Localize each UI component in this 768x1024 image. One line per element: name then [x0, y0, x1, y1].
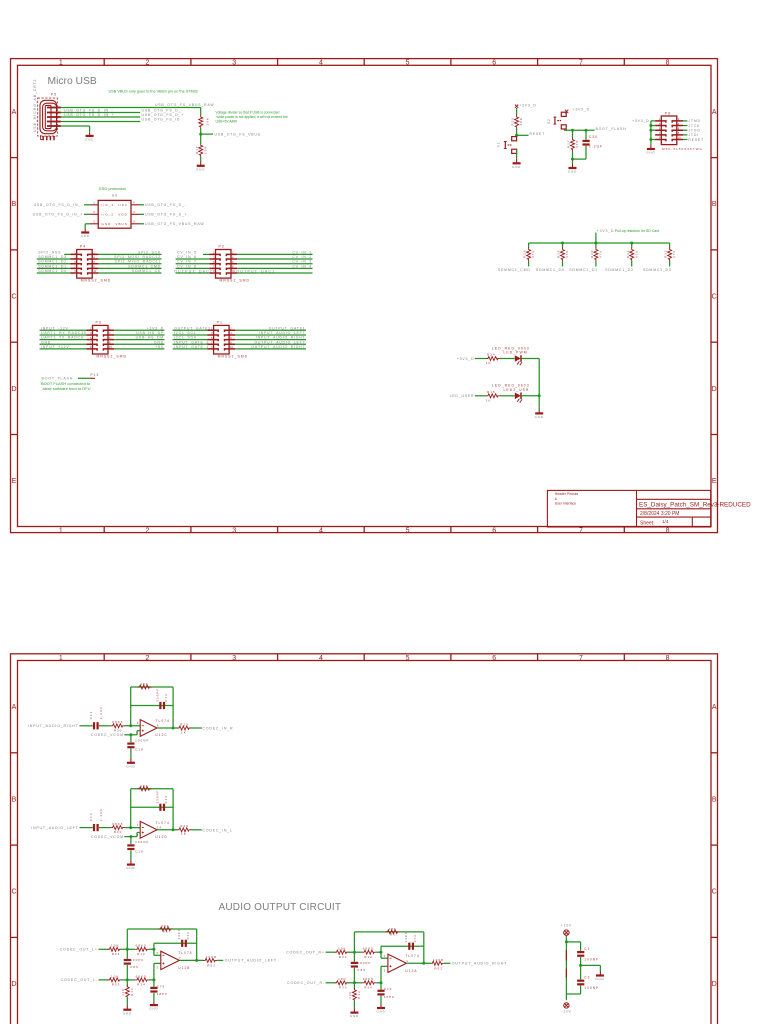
svg-text:OUTPUT_AUDIO_RIGHT: OUTPUT_AUDIO_RIGHT: [452, 962, 507, 966]
svg-text:3: 3: [384, 968, 387, 972]
svg-text:USB_OTG_FS_D_IN_+: USB_OTG_FS_D_IN_+: [33, 213, 83, 217]
svg-text:USB_OTG_FS_D_IN_+: USB_OTG_FS_D_IN_+: [64, 113, 114, 117]
svg-text:5: 5: [157, 966, 160, 970]
svg-text:INPUT_-12V: INPUT_-12V: [41, 326, 69, 330]
svg-text:OUTPUT_AUDIO_RIGHT: OUTPUT_AUDIO_RIGHT: [251, 345, 305, 349]
svg-text:6: 6: [133, 200, 136, 204]
svg-text:LED2_USR: LED2_USR: [504, 388, 530, 392]
svg-text:USB_OTG_FS_D_-: USB_OTG_FS_D_-: [145, 203, 187, 207]
svg-text:P8: P8: [665, 112, 671, 116]
svg-text:BOOT_FLASH: BOOT_FLASH: [42, 377, 74, 381]
svg-text:INPUT_AUDIO_LEFT: INPUT_AUDIO_LEFT: [259, 331, 306, 335]
svg-text:Header Pinouts: Header Pinouts: [555, 492, 579, 496]
svg-text:100NF: 100NF: [584, 986, 599, 990]
svg-text:P4: P4: [80, 245, 86, 249]
svg-text:7: 7: [179, 956, 182, 960]
svg-text:USB_HS_DP: USB_HS_DP: [136, 331, 164, 335]
svg-text:R51: R51: [207, 964, 216, 968]
svg-text:ES_Daisy_Patch_SM_Rev3-REDUCED: ES_Daisy_Patch_SM_Rev3-REDUCED: [639, 502, 751, 509]
svg-text:GND: GND: [41, 340, 51, 344]
svg-text:R16: R16: [201, 117, 205, 126]
svg-text:R17: R17: [195, 145, 199, 154]
svg-text:P3: P3: [96, 320, 102, 324]
svg-text:C3: C3: [584, 976, 590, 980]
svg-text:allow software boot to DFU: allow software boot to DFU: [43, 386, 91, 391]
svg-text:USB+5V AMR: USB+5V AMR: [216, 120, 238, 124]
svg-text:10K: 10K: [519, 117, 523, 126]
svg-text:+3V3_D: +3V3_D: [632, 119, 649, 123]
svg-text:SDMMC1_D2: SDMMC1_D2: [38, 260, 67, 264]
svg-text:JTDI: JTDI: [688, 133, 699, 137]
svg-text:47K: 47K: [634, 250, 638, 258]
svg-text:RESET: RESET: [530, 132, 546, 136]
svg-text:47K: 47K: [575, 140, 579, 149]
svg-text:R52: R52: [434, 967, 443, 971]
svg-text:USB_HS_DM: USB_HS_DM: [136, 336, 164, 340]
svg-text:OUTPUT_GATE1: OUTPUT_GATE1: [269, 326, 306, 330]
svg-text:INPUT_GATE_1: INPUT_GATE_1: [174, 345, 209, 349]
svg-text:MRSS2_SMD: MRSS2_SMD: [220, 279, 251, 283]
svg-text:12: 12: [137, 833, 142, 837]
svg-text:CODEC_IN_R: CODEC_IN_R: [202, 727, 233, 731]
svg-text:USB_OTG_FS_D_IN_-: USB_OTG_FS_D_IN_-: [34, 203, 83, 207]
svg-text:JTCK: JTCK: [688, 124, 700, 128]
svg-text:ESD protection: ESD protection: [99, 186, 126, 191]
svg-text:CODEC_OUT_L+: CODEC_OUT_L+: [60, 948, 98, 952]
svg-text:CV_IN_6: CV_IN_6: [177, 255, 197, 259]
svg-text:4: 4: [133, 210, 136, 214]
svg-text:SDMMC1_D3: SDMMC1_D3: [643, 268, 672, 272]
svg-text:INPUT_AUDIO_RIGHT: INPUT_AUDIO_RIGHT: [28, 724, 79, 728]
svg-text:R28: R28: [523, 250, 527, 258]
svg-text:CV_IN_7: CV_IN_7: [177, 260, 197, 264]
svg-text:P13: P13: [91, 373, 100, 377]
svg-text:CV_IN_2: CV_IN_2: [292, 255, 312, 259]
svg-text:SDMMC1_CK: SDMMC1_CK: [132, 269, 161, 273]
svg-text:MRSS2_SMD: MRSS2_SMD: [81, 279, 112, 283]
svg-text:JTMS: JTMS: [688, 119, 700, 123]
svg-text:I/O_1: I/O_1: [102, 203, 115, 207]
svg-text:47K: 47K: [565, 250, 569, 258]
svg-text:5: 5: [133, 219, 136, 223]
svg-text:SPI2_MISO_RADC11: SPI2_MISO_RADC11: [115, 260, 161, 264]
svg-text:CV_IN_1: CV_IN_1: [292, 250, 312, 254]
svg-text:JTDO: JTDO: [688, 129, 700, 133]
svg-text:OUTPUT_AUDIO_LEFT: OUTPUT_AUDIO_LEFT: [254, 340, 305, 344]
svg-text:10K: 10K: [203, 146, 207, 155]
svg-text:S1: S1: [497, 142, 501, 148]
svg-text:10: 10: [137, 731, 142, 735]
svg-text:36K: 36K: [205, 117, 209, 126]
svg-text:USB_OTG_FS_D_-: USB_OTG_FS_D_-: [142, 108, 184, 112]
svg-text:R15: R15: [487, 390, 496, 394]
svg-text:INPUT_AUDIO_RIGHT: INPUT_AUDIO_RIGHT: [256, 336, 306, 340]
svg-text:Pull-up resistors for SD Card: Pull-up resistors for SD Card: [615, 229, 660, 233]
svg-text:-12V: -12V: [561, 1009, 571, 1013]
svg-text:+3V3_D: +3V3_D: [597, 229, 614, 233]
svg-text:P1: P1: [217, 320, 223, 324]
svg-text:CODEC_IN_L: CODEC_IN_L: [202, 828, 232, 832]
svg-text:9: 9: [137, 721, 140, 725]
svg-text:LED_USER: LED_USER: [450, 394, 475, 398]
svg-text:U12C: U12C: [155, 733, 167, 737]
svg-text:1: 1: [406, 959, 409, 963]
svg-text:CODEC_OUT_L-: CODEC_OUT_L-: [61, 978, 98, 982]
svg-text:BOOT_FLASH: BOOT_FLASH: [596, 127, 627, 131]
svg-text:R32: R32: [664, 250, 668, 258]
svg-text:2.2UF: 2.2UF: [589, 145, 603, 149]
svg-text:13: 13: [137, 823, 142, 827]
svg-text:C30: C30: [589, 135, 598, 139]
svg-text:USB_OTG_FS_D_+: USB_OTG_FS_D_+: [145, 213, 188, 217]
svg-text:47K: 47K: [599, 250, 603, 258]
svg-text:1K: 1K: [486, 361, 492, 365]
svg-text:R30: R30: [114, 830, 123, 834]
svg-text:+3V3_D: +3V3_D: [147, 326, 164, 330]
svg-text:RESET: RESET: [688, 138, 704, 142]
svg-text:USB VBUS only goes to the VBUS: USB VBUS only goes to the VBUS pin on th…: [109, 90, 199, 94]
svg-text:LED_PWM: LED_PWM: [504, 351, 528, 355]
svg-text:3: 3: [93, 210, 96, 214]
svg-text:+3V3_D: +3V3_D: [573, 108, 590, 112]
svg-text:47K: 47K: [531, 250, 535, 258]
svg-text:R26: R26: [511, 117, 515, 126]
svg-text:2: 2: [384, 954, 387, 958]
svg-text:USB_OTG_FS_VBUS: USB_OTG_FS_VBUS: [215, 132, 261, 136]
svg-text:MRSS2_SMD: MRSS2_SMD: [218, 354, 249, 358]
svg-text:U12D: U12D: [155, 835, 167, 839]
svg-text:R30: R30: [590, 250, 594, 258]
svg-text:GND: GND: [154, 340, 164, 344]
svg-text:8: 8: [157, 724, 160, 728]
svg-text:P2: P2: [219, 245, 225, 249]
svg-text:2/8/2024 3:20 PM: 2/8/2024 3:20 PM: [640, 511, 679, 517]
svg-text:CV_IN_3: CV_IN_3: [292, 260, 312, 264]
svg-text:+3V3_D: +3V3_D: [519, 103, 536, 107]
svg-text:R29: R29: [557, 250, 561, 258]
svg-text:6: 6: [157, 951, 160, 955]
svg-text:SPI2_SCK: SPI2_SCK: [138, 250, 161, 254]
svg-text:while power is not applied, it: while power is not applied, it will not …: [217, 115, 288, 119]
svg-text:CV_IN_8: CV_IN_8: [177, 264, 197, 268]
svg-text:USB_OTG_FS_VBUS_RAW: USB_OTG_FS_VBUS_RAW: [155, 103, 214, 107]
svg-text:I/O_2: I/O_2: [102, 213, 115, 217]
svg-text:Voltage divider so that if USB: Voltage divider so that if USB is connec…: [216, 111, 280, 115]
svg-text:USB_MICRO_AB_CRT2: USB_MICRO_AB_CRT2: [33, 79, 37, 132]
svg-text:R14: R14: [487, 353, 496, 357]
svg-text:2.2UF: 2.2UF: [99, 808, 103, 821]
svg-text:INPUT_GATE_2: INPUT_GATE_2: [174, 340, 209, 344]
svg-text:CV_IN_5: CV_IN_5: [177, 250, 197, 254]
svg-text:LED_RED_0603: LED_RED_0603: [492, 384, 530, 388]
svg-text:SDMMC1_D0: SDMMC1_D0: [38, 269, 67, 273]
svg-text:1K: 1K: [486, 398, 492, 402]
svg-text:Sheet:: Sheet:: [640, 521, 654, 527]
svg-text:2: 2: [93, 219, 96, 223]
svg-text:SDMMC1_D0: SDMMC1_D0: [536, 268, 565, 272]
svg-text:OUTPUT_DAC1: OUTPUT_DAC1: [237, 270, 276, 274]
svg-text:SDMMC1_CMD: SDMMC1_CMD: [498, 268, 531, 272]
svg-text:+12V: +12V: [561, 924, 572, 928]
svg-text:USB_OTG_FS_ID: USB_OTG_FS_ID: [142, 117, 181, 121]
svg-text:U12A: U12A: [405, 969, 417, 973]
svg-text:INPUT_AUDIO_LEFT: INPUT_AUDIO_LEFT: [31, 826, 78, 830]
svg-text:OUTPUT_GATE2: OUTPUT_GATE2: [174, 326, 211, 330]
svg-text:LED_RED_0603: LED_RED_0603: [492, 346, 530, 350]
svg-text:I/O2: I/O2: [118, 203, 128, 207]
svg-text:I2C1_SCL: I2C1_SCL: [174, 331, 196, 335]
svg-text:14: 14: [157, 826, 162, 830]
svg-text:1: 1: [93, 200, 96, 204]
svg-text:CV_IN_4: CV_IN_4: [292, 264, 312, 268]
svg-text:USB_OTG_FS_D_+: USB_OTG_FS_D_+: [142, 113, 185, 117]
svg-text:User Interface: User Interface: [555, 501, 576, 505]
svg-text:CODEC_OUT_R+: CODEC_OUT_R+: [286, 951, 325, 955]
svg-text:M50-3150545TWG: M50-3150545TWG: [662, 147, 703, 151]
svg-text:SDMMC1_CMD: SDMMC1_CMD: [128, 264, 161, 268]
svg-text:C1: C1: [584, 947, 590, 951]
svg-text:47K: 47K: [672, 250, 676, 258]
svg-text:SDMMC1_D2: SDMMC1_D2: [605, 268, 634, 272]
svg-text:VBUS: VBUS: [115, 222, 127, 226]
svg-text:VDD: VDD: [118, 213, 127, 217]
svg-text:Micro USB: Micro USB: [48, 76, 97, 87]
svg-text:USB_OTG_FS_D_IN_-: USB_OTG_FS_D_IN_-: [64, 108, 113, 112]
svg-text:U12B: U12B: [178, 966, 190, 970]
svg-text:UART1_TX_RADC9: UART1_TX_RADC9: [41, 336, 84, 340]
svg-text:I2C1_SDA: I2C1_SDA: [174, 336, 197, 340]
svg-text:SDMMC1_D1: SDMMC1_D1: [38, 264, 67, 268]
svg-text:USB_OTG_FS_VBUS_RAW: USB_OTG_FS_VBUS_RAW: [145, 222, 204, 226]
svg-text:1/4: 1/4: [662, 519, 669, 524]
svg-text:MRSS2_SMD: MRSS2_SMD: [97, 354, 128, 358]
svg-text:AUDIO OUTPUT CIRCUIT: AUDIO OUTPUT CIRCUIT: [219, 902, 342, 913]
svg-text:SPI2_MOSI_RADC12: SPI2_MOSI_RADC12: [114, 255, 161, 259]
svg-text:R30: R30: [114, 728, 123, 732]
svg-text:INPUT_+12V: INPUT_+12V: [41, 345, 70, 349]
svg-text:P5: P5: [51, 93, 57, 97]
svg-text:2.2UF: 2.2UF: [99, 706, 103, 719]
svg-text:UART1_RX_RADC30: UART1_RX_RADC30: [41, 331, 87, 335]
svg-text:CODEC_OUT_R-: CODEC_OUT_R-: [287, 981, 325, 985]
svg-text:GND: GND: [102, 222, 112, 226]
svg-text:S2: S2: [547, 118, 551, 124]
svg-text:100NF: 100NF: [584, 957, 599, 961]
svg-text:R31: R31: [626, 250, 630, 258]
svg-text:R27: R27: [566, 139, 570, 148]
svg-text:U6: U6: [112, 193, 118, 197]
svg-text:+3V3_D: +3V3_D: [457, 357, 474, 361]
svg-text:SDMMC1_D3: SDMMC1_D3: [38, 255, 67, 259]
svg-text:OUTPUT_DAC2: OUTPUT_DAC2: [174, 270, 213, 274]
svg-text:+5V: +5V: [155, 345, 164, 349]
svg-text:OUTPUT_AUDIO_LEFT: OUTPUT_AUDIO_LEFT: [225, 959, 277, 963]
svg-text:SDMMC1_D1: SDMMC1_D1: [569, 268, 598, 272]
svg-text:SPI2_NSS: SPI2_NSS: [38, 250, 61, 254]
